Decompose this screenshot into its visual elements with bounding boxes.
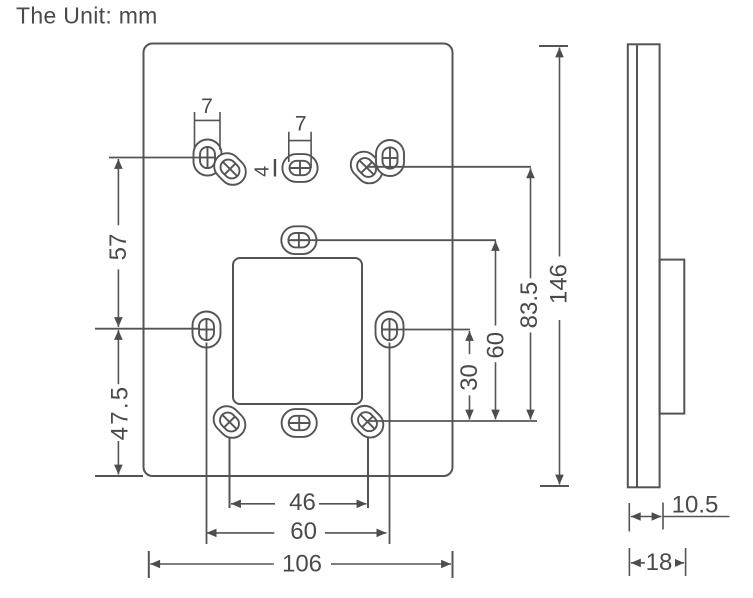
label 7 middle <box>295 112 307 135</box>
svg-text:7: 7 <box>201 95 213 118</box>
title text <box>16 3 158 29</box>
label 57 <box>105 225 132 269</box>
dim 146 vertical <box>559 48 561 485</box>
svg-text:7: 7 <box>295 112 307 135</box>
wire: leader line right mid hole to 30 <box>382 329 470 331</box>
dim 10.5 <box>629 503 729 532</box>
dim 83.5 vertical <box>530 168 532 419</box>
wire: extension line right mid hole down (60 dim) <box>389 343 391 545</box>
side view <box>628 44 685 487</box>
hole top-left diagonal <box>209 148 251 190</box>
wire: leader line top-center hole to 60 <box>291 239 496 241</box>
plate outline front view <box>144 44 453 477</box>
dim 7 left extension lines <box>195 112 221 150</box>
hole top-left cross <box>194 140 222 176</box>
label 83.5 <box>516 278 543 332</box>
wire: extension tick 106 left <box>148 551 150 578</box>
wire: extension tick 146 top <box>539 45 568 47</box>
wire: extension line bottom-left hole down (46 dim) <box>229 422 231 508</box>
dimension texts <box>105 95 718 577</box>
hole mid-left cross <box>193 312 221 348</box>
wire: extension line bottom-right hole down (46 dim) <box>367 422 369 508</box>
hole upper-center cross <box>281 226 316 254</box>
dim 30 vertical <box>469 331 471 420</box>
svg-text:30: 30 <box>456 364 483 391</box>
dim 60 horizontal <box>207 532 387 534</box>
svg-text:47.5: 47.5 <box>107 385 134 441</box>
svg-text:10.5: 10.5 <box>672 492 719 519</box>
svg-text:57: 57 <box>105 234 132 261</box>
svg-text:The Unit: mm: The Unit: mm <box>16 3 158 29</box>
svg-text:106: 106 <box>282 550 322 577</box>
svg-text:4: 4 <box>252 166 274 177</box>
side view inner line <box>636 44 638 487</box>
hole top-middle cross <box>282 154 317 182</box>
dim 46 horizontal <box>231 503 367 505</box>
label 60 vertical <box>483 326 510 363</box>
dim 7 middle extension lines <box>289 132 311 168</box>
wire: leader line left mid hole <box>95 328 199 330</box>
wire: leader line right top hole to 83.5 <box>367 166 531 168</box>
svg-text:46: 46 <box>289 489 316 516</box>
svg-text:60: 60 <box>483 332 510 359</box>
dim 57 vertical <box>117 159 119 327</box>
label 7 left <box>201 95 213 118</box>
dim 60 vertical <box>495 241 497 420</box>
wire: leader line bottom right hole to 83.5 <box>368 420 538 422</box>
label 146 <box>545 257 572 321</box>
hole bottom-left diagonal <box>208 401 250 443</box>
hole top-right cross <box>376 140 404 176</box>
inner square opening <box>233 258 362 404</box>
label 46 <box>275 489 319 516</box>
label 4 mark <box>252 166 274 177</box>
hole mid-right cross <box>376 312 404 348</box>
dim 106 horizontal <box>150 563 451 565</box>
label 18 <box>645 549 675 576</box>
side view body <box>628 44 660 487</box>
label 47.5 <box>107 384 134 441</box>
wire: extension tick 106 right <box>452 551 454 578</box>
label I mark <box>272 155 279 183</box>
svg-text:60: 60 <box>290 518 317 545</box>
dim 18 <box>629 548 685 576</box>
wire: extension tick 146 bottom <box>540 485 569 487</box>
hole bottom-center cross <box>282 409 317 437</box>
wire: extension line from left mid hole down (60 dim) <box>206 343 208 545</box>
svg-text:83.5: 83.5 <box>516 282 543 329</box>
hole bottom-right diagonal <box>346 400 388 442</box>
label 60 bottom <box>274 518 325 545</box>
label 106 <box>274 550 331 577</box>
dim 47.5 vertical <box>117 330 119 475</box>
label 30 <box>456 354 483 395</box>
svg-text:146: 146 <box>545 264 572 304</box>
hole top-right diagonal <box>345 146 387 188</box>
svg-text:18: 18 <box>646 549 673 576</box>
wire: bottom edge extension left (47.5) <box>95 475 143 477</box>
side view protrusion <box>660 260 685 414</box>
wire: leader line left top hole row <box>109 157 200 159</box>
label 10.5 <box>672 492 719 519</box>
svg-text:I: I <box>272 155 279 183</box>
